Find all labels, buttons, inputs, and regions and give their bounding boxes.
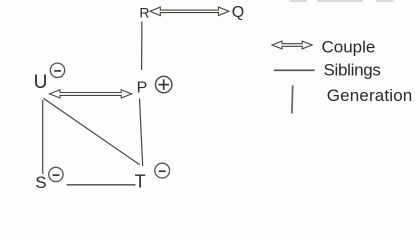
cropped bar fragment 2 (top edge) xyxy=(317,0,363,2)
diagonal line U-T xyxy=(43,98,139,164)
svg-text:Generation: Generation xyxy=(327,86,413,105)
svg-text:T: T xyxy=(135,172,146,192)
svg-text:S: S xyxy=(35,173,46,192)
generation line R-P xyxy=(141,22,143,71)
plus symbol at P xyxy=(156,76,172,92)
legend couple arrow xyxy=(272,41,312,49)
legend generation line xyxy=(291,85,294,113)
minus symbol at S xyxy=(49,167,63,181)
svg-text:Siblings: Siblings xyxy=(324,61,381,80)
svg-text:Couple: Couple xyxy=(322,38,376,57)
generation line U-S xyxy=(42,100,44,174)
cropped bar fragment 3 (top edge) xyxy=(376,0,394,2)
sibling line S-T xyxy=(67,184,136,186)
legend sibling line xyxy=(274,69,315,71)
couple arrow R-Q xyxy=(150,7,229,15)
svg-text:P: P xyxy=(137,79,148,96)
generation line P-T xyxy=(140,99,143,167)
svg-text:U: U xyxy=(34,72,48,93)
couple arrow U-P xyxy=(50,90,132,98)
svg-text:R: R xyxy=(139,5,149,21)
minus symbol at T xyxy=(155,163,170,178)
minus symbol at U xyxy=(50,63,64,77)
cropped bar fragment 1 (top edge) xyxy=(290,0,307,2)
svg-text:Q: Q xyxy=(232,4,244,21)
